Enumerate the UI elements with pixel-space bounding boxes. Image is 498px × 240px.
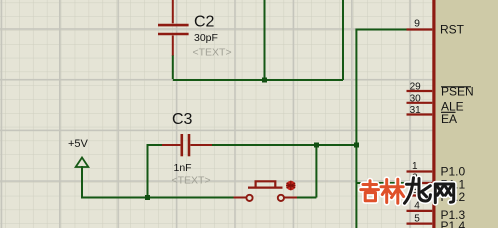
svg-text:<TEXT>: <TEXT> (172, 175, 211, 187)
svg-text:P1.4: P1.4 (441, 219, 466, 228)
svg-text:9: 9 (414, 18, 420, 30)
svg-text:30pF: 30pF (194, 32, 218, 44)
svg-text:1: 1 (412, 161, 418, 172)
svg-text:5: 5 (414, 213, 420, 224)
svg-text:RST: RST (440, 23, 465, 37)
svg-text:<TEXT>: <TEXT> (193, 47, 232, 59)
svg-text:EA: EA (441, 112, 457, 126)
svg-text:29: 29 (410, 82, 422, 93)
svg-text:+5V: +5V (68, 138, 89, 150)
svg-text:1nF: 1nF (174, 162, 192, 174)
svg-text:31: 31 (410, 105, 422, 116)
svg-text:P1.0: P1.0 (441, 165, 466, 179)
svg-text:30: 30 (410, 93, 422, 104)
svg-text:C3: C3 (172, 111, 193, 128)
svg-text:C2: C2 (194, 14, 215, 31)
